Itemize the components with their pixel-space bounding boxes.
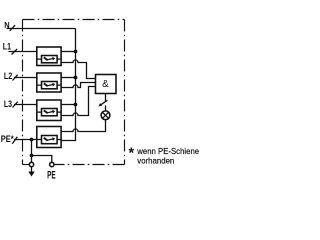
arrester F4 inner stubs bbox=[37, 139, 61, 141]
wire F2 monitor to AND input 2 (hop over bus) bbox=[61, 83, 95, 88]
arrester F2 inner stubs bbox=[37, 84, 61, 86]
indicator lamp H1 bbox=[101, 111, 110, 120]
svg-text:L3: L3 bbox=[4, 98, 12, 109]
arrester F3 inner stubs bbox=[37, 111, 61, 113]
svg-text:PE*: PE* bbox=[1, 134, 14, 145]
svg-text:L2: L2 bbox=[4, 70, 12, 81]
svg-text:*: * bbox=[129, 146, 135, 162]
junction L3/N bus bbox=[74, 103, 78, 107]
svg-text:vorhanden: vorhanden bbox=[137, 155, 174, 165]
switch contact S1 blade bbox=[100, 100, 108, 105]
wire L1 left bbox=[9, 51, 37, 53]
wire L3 output to bus bbox=[61, 104, 75, 106]
wire N bbox=[7, 28, 76, 30]
wire lamp return to F4 monitor (hop over bus) bbox=[61, 120, 105, 132]
svg-text:L1: L1 bbox=[3, 41, 12, 52]
wire L1 output to bus bbox=[61, 51, 75, 53]
arrester F1 (L1) outer box bbox=[37, 47, 61, 66]
terminal slash L1 bbox=[12, 49, 18, 55]
wire PE branch down bbox=[31, 140, 33, 156]
wire F3 monitor to AND input 3 (hop over bus) bbox=[61, 87, 95, 116]
arrester F1 inner stubs bbox=[37, 58, 61, 60]
arrester F2 inner spark-gap box bbox=[42, 82, 58, 89]
wire N bus down to F4 bbox=[61, 29, 75, 141]
junction L2/N bus bbox=[74, 76, 78, 80]
terminal X2 (PE) bbox=[50, 162, 54, 166]
ground arrow bbox=[28, 172, 34, 177]
arrester F2 spark-gap arrow bbox=[44, 83, 55, 87]
junction PE wire bbox=[30, 138, 34, 142]
junction PE branch bbox=[30, 154, 34, 158]
wire PE branch to terminal 2 bbox=[32, 156, 52, 163]
terminal slash L2 bbox=[13, 75, 18, 81]
wire switch to lamp bbox=[105, 105, 107, 111]
svg-text:PE: PE bbox=[47, 170, 56, 182]
arrester F1 inner spark-gap box bbox=[42, 56, 58, 63]
arrester F2 (L2) outer box bbox=[37, 73, 61, 92]
terminal slash N bbox=[10, 25, 15, 31]
junction L1/N bus bbox=[74, 50, 78, 54]
arrester F4 spark-gap arrow bbox=[44, 137, 55, 141]
lamp H1 cross bbox=[102, 112, 108, 118]
wire L3 left bbox=[14, 104, 37, 106]
arrester F3 inner spark-gap box bbox=[42, 109, 58, 116]
svg-text:wenn PE-Schiene: wenn PE-Schiene bbox=[136, 146, 199, 156]
wire PE left bbox=[14, 139, 37, 141]
enclosure dash-dot border bbox=[23, 20, 125, 165]
arrester F3 spark-gap arrow bbox=[44, 110, 55, 114]
wire AND output down bbox=[105, 94, 107, 102]
wire to ground bbox=[31, 167, 33, 172]
wire F1 monitor to AND input 1 (hop over bus) bbox=[61, 60, 95, 79]
arrester F4 (N-PE) outer box bbox=[37, 127, 61, 148]
wire PE branch to terminal 1 bbox=[31, 156, 33, 163]
arrester F3 (L3) outer box bbox=[37, 100, 61, 121]
switch contact S1 arrowhead bbox=[99, 103, 103, 106]
terminal slash PE bbox=[12, 137, 17, 144]
wire L2 left bbox=[14, 77, 37, 79]
arrester F1 spark-gap arrow bbox=[44, 57, 55, 61]
AND gate U1 box bbox=[96, 75, 117, 94]
svg-text:&: & bbox=[102, 79, 109, 90]
terminal slash L3 bbox=[13, 102, 18, 108]
arrester F4 inner spark-gap box bbox=[42, 136, 58, 144]
wire L2 output to bus bbox=[61, 77, 75, 79]
terminal X1 (ground) bbox=[29, 162, 33, 166]
